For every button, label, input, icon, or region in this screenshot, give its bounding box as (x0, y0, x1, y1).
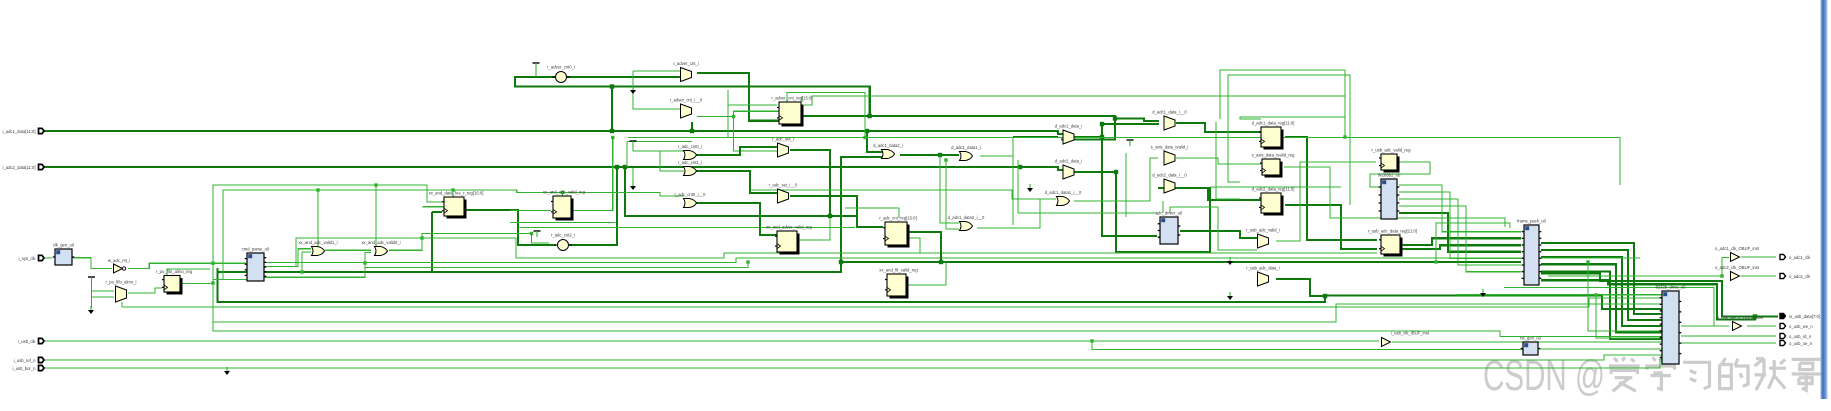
svg-text:o_usb_we_n_OBUF_inst: o_usb_we_n_OBUF_inst (1717, 315, 1764, 320)
svg-text:d_adc1_data_i: d_adc1_data_i (1055, 124, 1083, 129)
svg-text:i_usb_ref_n: i_usb_ref_n (14, 358, 37, 363)
svg-text:r_usb_adc_data_reg[21:0]: r_usb_adc_data_reg[21:0] (1368, 229, 1417, 234)
svg-text:i_usb_bor_n: i_usb_bor_n (12, 366, 36, 371)
svg-text:d_adc1_data2_i: d_adc1_data2_i (873, 143, 903, 148)
svg-text:o_adc2_clk_OBUF_inst: o_adc2_clk_OBUF_inst (1715, 265, 1760, 270)
svg-text:r_adc_cnt1_i: r_adc_cnt1_i (678, 160, 702, 165)
svg-text:w_adc_rst_i: w_adc_rst_i (108, 258, 130, 263)
svg-text:s_axis_data_tvalid_i: s_axis_data_tvalid_i (1151, 145, 1189, 150)
svg-text:adc_driver_u0: adc_driver_u0 (1156, 211, 1183, 216)
svg-text:i_adc2_data[11:0]: i_adc2_data[11:0] (2, 165, 35, 170)
svg-text:d_adc2_data_i__0: d_adc2_data_i__0 (1152, 173, 1187, 178)
svg-text:i_adc1_data[11:0]: i_adc1_data[11:0] (2, 129, 35, 134)
svg-text:d_adc2_data_reg[11:0]: d_adc2_data_reg[11:0] (1252, 187, 1295, 192)
svg-text:clk_gen_u0: clk_gen_u0 (53, 243, 75, 248)
svg-text:r_adc_cnt2_i: r_adc_cnt2_i (551, 233, 575, 238)
svg-text:o_adc1_clk: o_adc1_clk (1789, 255, 1811, 260)
svg-text:o_adc1_clk_OBUF_inst: o_adc1_clk_OBUF_inst (1715, 246, 1760, 251)
svg-text:r_adver_cnt0_i: r_adver_cnt0_i (547, 65, 575, 70)
svg-text:xx_and_adc_valid_reg: xx_and_adc_valid_reg (543, 190, 586, 195)
svg-text:d_adc1_data2_i__0: d_adc1_data2_i__0 (948, 215, 985, 220)
svg-text:frame_pack_u0: frame_pack_u0 (1517, 219, 1547, 224)
svg-text:xx_and_fif_valid_reg: xx_and_fif_valid_reg (879, 268, 918, 273)
svg-text:i_sys_clk: i_sys_clk (18, 256, 36, 261)
svg-text:d_adc1_data_reg[11:0]: d_adc1_data_reg[11:0] (1252, 121, 1295, 126)
svg-text:d_adc1_data1_i__0: d_adc1_data1_i__0 (1045, 190, 1082, 195)
svg-text:cmd_parse_u0: cmd_parse_u0 (242, 247, 270, 252)
svg-text:d_adc2_data_i: d_adc2_data_i (1055, 159, 1083, 164)
svg-text:xx_and_adc_valid1_i: xx_and_adc_valid1_i (298, 240, 337, 245)
svg-text:r_usb_adc_data_i: r_usb_adc_data_i (1246, 266, 1279, 271)
svg-text:i_usb_clk: i_usb_clk (18, 339, 36, 344)
svg-text:d_adc1_data1_i: d_adc1_data1_i (951, 145, 981, 150)
svg-text:rst_gen_u0: rst_gen_u0 (1520, 336, 1542, 341)
svg-text:r_adc_set_i__0: r_adc_set_i__0 (769, 183, 798, 188)
svg-text:io_usb_data[7:0]: io_usb_data[7:0] (1789, 314, 1820, 319)
svg-text:o_adc2_clk: o_adc2_clk (1789, 274, 1811, 279)
svg-text:r_usb_adc_valid_i: r_usb_adc_valid_i (1246, 228, 1280, 233)
svg-text:r_adc_cnt_reg[15:0]: r_adc_cnt_reg[15:0] (879, 216, 916, 221)
svg-text:d_adc1_data_i__0: d_adc1_data_i__0 (1152, 110, 1187, 115)
svg-text:o_usb_we_n: o_usb_we_n (1789, 324, 1813, 329)
svg-text:r_adver_cnt_i: r_adver_cnt_i (673, 61, 698, 66)
svg-text:r_adc_set_i: r_adc_set_i (772, 137, 794, 142)
svg-text:r_adc_cnt0_i__0: r_adc_cnt0_i__0 (675, 192, 707, 197)
svg-text:xx_and_adver_valid_reg: xx_and_adver_valid_reg (766, 225, 812, 230)
svg-text:xx_and_adc_valid0_i: xx_and_adc_valid0_i (361, 240, 400, 245)
svg-text:r_po_fifo_almo_reg: r_po_fifo_almo_reg (156, 269, 193, 274)
svg-text:xx_and_data_fee_r_reg[15:0]: xx_and_data_fee_r_reg[15:0] (429, 191, 484, 196)
svg-text:r_adver_cnt_i__0: r_adver_cnt_i__0 (670, 98, 703, 103)
svg-text:i_usb_clk_IBUF_inst: i_usb_clk_IBUF_inst (1391, 331, 1430, 336)
svg-text:o_usb_rd_n: o_usb_rd_n (1789, 334, 1812, 339)
svg-text:r_adc_cnt0_i: r_adc_cnt0_i (678, 144, 702, 149)
svg-text:W288b2_u0: W288b2_u0 (1378, 173, 1401, 178)
svg-text:CSDN @: CSDN @ (1483, 352, 1605, 400)
svg-text:8232b_drive_u0: 8232b_drive_u0 (1655, 285, 1686, 290)
svg-text:r_po_fifo_almo_i: r_po_fifo_almo_i (106, 280, 137, 285)
svg-text:o_usb_oe_n: o_usb_oe_n (1789, 341, 1813, 346)
svg-text:r_adver_cnt_reg[15:0]: r_adver_cnt_reg[15:0] (772, 96, 813, 101)
svg-text:r_usb_adc_valid_reg: r_usb_adc_valid_reg (1372, 148, 1412, 153)
svg-text:s_axis_data_tvalid_reg: s_axis_data_tvalid_reg (1252, 153, 1296, 158)
